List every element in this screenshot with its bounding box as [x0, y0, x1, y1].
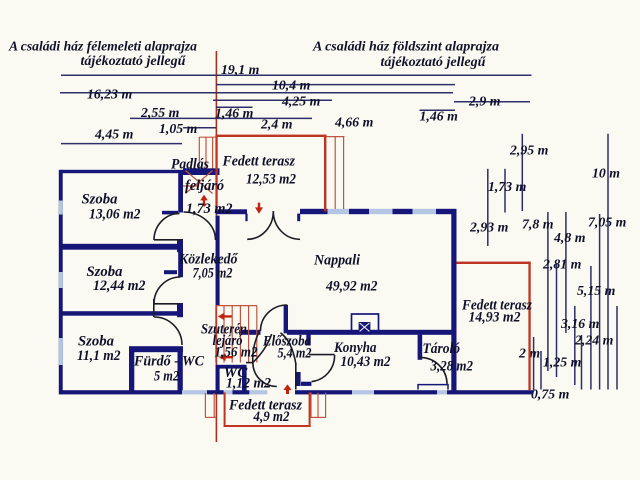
wall main top segment D — [436, 209, 457, 214]
red terasz bottom (4,9): left edge — [224, 392, 226, 427]
wall bottom segment 6 — [447, 390, 533, 394]
wall right outer (földszint) — [451, 210, 456, 391]
svg-text:1,05 m: 1,05 m — [159, 121, 198, 136]
red arrow down at double door — [255, 203, 263, 214]
red lower-terasz side step left cap — [205, 416, 215, 418]
red basement stair tread 1 — [215, 306, 217, 363]
wall leaf piece Konyha door — [301, 382, 311, 386]
svg-text:Fürdő - WC: Fürdő - WC — [133, 353, 204, 369]
wall leaf Előszoba top door — [284, 305, 288, 334]
wall left outer (left plan) — [59, 170, 63, 395]
wall Nappali/Konyha left part — [239, 330, 261, 335]
wall center divider upper (Nappali west) — [216, 216, 220, 306]
red basement stair tread 2 — [223, 306, 225, 363]
window main top W3 — [413, 209, 437, 214]
svg-text:3,28 m2: 3,28 m2 — [430, 358, 473, 374]
svg-text:49,92 m2: 49,92 m2 — [325, 279, 377, 295]
window bottom W5 — [437, 390, 447, 394]
wall bottom segment 3 — [233, 390, 250, 394]
vertical dimension line 1,73 m — [504, 169, 506, 213]
svg-text:0,75 m: 0,75 m — [531, 387, 570, 402]
door curve WC side right leaf — [253, 334, 272, 362]
wall main top segment A — [300, 209, 328, 214]
red lower-terasz side step right b — [317, 393, 319, 418]
dimension line 4,25 m — [213, 99, 332, 101]
door arc Előszoba bottom right — [281, 333, 297, 365]
svg-text:1,73 m: 1,73 m — [488, 179, 527, 194]
svg-text:14,93 m2: 14,93 m2 — [469, 309, 521, 325]
wall jamb at double door left — [245, 214, 247, 222]
vertical dimension line 2,81 m — [556, 264, 558, 377]
red attic stair top cap — [199, 136, 215, 138]
wall jamb at double door right — [297, 214, 300, 222]
red lower-terasz side step right cap — [310, 416, 326, 418]
red terasz bottom (4,9): right edge — [309, 392, 311, 427]
red terasz top: top edge — [215, 135, 326, 137]
wall WC right — [242, 365, 247, 392]
vertical dimension line 7,05 m — [599, 214, 601, 390]
wall Nappali/Konyha main — [287, 330, 452, 335]
wall bottom segment 5 — [374, 390, 437, 394]
red attic stair line c — [212, 137, 214, 169]
svg-text:1,12 m2: 1,12 m2 — [226, 375, 271, 391]
window main top W1 — [328, 209, 350, 214]
svg-text:12,44 m2: 12,44 m2 — [93, 278, 146, 294]
window left wall middle — [59, 272, 63, 288]
svg-text:7,05 m2: 7,05 m2 — [193, 265, 233, 281]
kitchen sink box — [359, 322, 371, 332]
red attic stair line b — [205, 137, 207, 169]
svg-text:Padlás: Padlás — [171, 157, 209, 173]
svg-text:feljáró: feljáró — [185, 178, 224, 194]
svg-text:Szoba: Szoba — [82, 192, 118, 208]
vertical dimension line 2,24 m — [581, 335, 583, 390]
svg-text:5,15 m: 5,15 m — [577, 283, 616, 298]
door arc Előszoba bottom left — [253, 362, 277, 386]
svg-text:2,93 m: 2,93 m — [469, 220, 509, 235]
red lower-terasz side step right a — [310, 393, 312, 418]
wall Fürdő left — [129, 352, 134, 391]
vertical dimension line 3,16 m — [574, 306, 576, 385]
svg-text:2,95 m: 2,95 m — [509, 142, 549, 157]
door leaf Szoba1 — [154, 239, 183, 241]
red arrow up bottom terasz door — [283, 384, 291, 394]
window bottom W2 — [224, 390, 233, 394]
window main top W2 — [369, 209, 393, 214]
svg-text:Fedett terasz: Fedett terasz — [222, 153, 296, 169]
red lower-terasz side step left a — [204, 393, 206, 418]
Tároló door threshold — [418, 385, 448, 390]
red basement stair top cap — [216, 305, 257, 307]
door leaf Konyha — [309, 354, 335, 356]
window left wall lower — [59, 338, 63, 365]
svg-text:1,73 m2: 1,73 m2 — [186, 201, 233, 217]
dimension line 2,55 m — [130, 117, 312, 119]
wall door nub Szoba2 — [164, 270, 177, 274]
red basement stair tread 5 — [248, 306, 250, 363]
wall attic-stair top block — [183, 168, 220, 175]
red basement stair tread 4 — [239, 306, 241, 363]
svg-text:2,4 m: 2,4 m — [260, 117, 293, 132]
red basement stair tread 6 — [256, 306, 258, 363]
svg-text:5,4 m2: 5,4 m2 — [278, 346, 312, 362]
svg-text:11,1 m2: 11,1 m2 — [77, 348, 121, 364]
svg-text:tájékoztató jellegű: tájékoztató jellegű — [381, 54, 486, 69]
vertical dimension line 10 m — [607, 134, 609, 390]
red step line terasz top right a — [334, 137, 336, 209]
svg-text:10 m: 10 m — [592, 165, 620, 180]
svg-text:7,05 m: 7,05 m — [588, 215, 627, 230]
vertical dimension line 7,8 m — [547, 212, 549, 371]
divider line between the two plans (dark red vertical) — [215, 51, 217, 442]
wall junction block szoba2/3 — [177, 303, 183, 317]
kitchen sink counter outline — [352, 314, 379, 332]
wall main top segment B — [349, 209, 369, 214]
wall main top segment C — [393, 209, 413, 214]
svg-text:1,56 m2: 1,56 m2 — [215, 345, 258, 361]
kitchen sink X mark — [360, 323, 370, 331]
door jamb line Előszoba bottom — [295, 364, 297, 390]
svg-text:A családi ház földszint alapra: A családi ház földszint alaprajza — [312, 38, 499, 53]
window bottom W1 — [182, 390, 207, 394]
double door right arc (terasz entry) — [273, 211, 300, 239]
wall junction block szoba1/2 — [177, 240, 183, 252]
red terasz top: right edge — [324, 135, 326, 212]
svg-text:12,53 m2: 12,53 m2 — [246, 172, 296, 188]
red arrow up attic stair — [200, 195, 208, 207]
svg-text:tájékoztató jellegű: tájékoztató jellegű — [81, 53, 186, 68]
double door left arc (terasz entry) — [247, 211, 273, 239]
wall Fürdő top — [129, 346, 183, 352]
red basement stair tread 3 — [231, 306, 233, 363]
dimension line 1,46 m right — [420, 109, 456, 111]
svg-text:16,23 m: 16,23 m — [87, 87, 132, 102]
window left wall upper — [59, 201, 63, 215]
svg-text:Szoba: Szoba — [78, 333, 114, 349]
door connector WC corner — [246, 362, 253, 364]
door curve WC side left leaf — [253, 333, 259, 363]
red arrow left basement stair upper — [218, 313, 232, 321]
svg-text:2,81 m: 2,81 m — [542, 257, 582, 272]
svg-text:1,25 m: 1,25 m — [543, 355, 582, 370]
svg-text:4,25 m: 4,25 m — [281, 94, 321, 109]
wall corridor upper (right wall of Szoba1) — [178, 173, 183, 213]
door arc Előszoba top — [261, 305, 288, 331]
wall bottom segment 4 — [295, 390, 352, 394]
wall between Szoba2 and Szoba3 — [62, 311, 181, 316]
vertical dimension line far right — [616, 306, 618, 390]
door arc Közlekedő entry — [184, 212, 216, 240]
vertical dimension line 1,25 m — [540, 351, 542, 390]
wall jamb Konyha door bottom — [296, 372, 301, 386]
wall Fürdő right — [178, 352, 183, 391]
red terasz bottom (4,9): bottom edge — [224, 425, 311, 427]
svg-text:Tároló: Tároló — [423, 341, 461, 357]
vertical dimension line 5,15 m — [590, 266, 592, 390]
wall door nub Szoba1 — [162, 211, 178, 215]
svg-text:4,8 m: 4,8 m — [553, 230, 586, 245]
svg-text:4,45 m: 4,45 m — [94, 127, 134, 142]
wall center divider lower (WC west) — [216, 369, 220, 391]
door leaf Szoba2 — [154, 303, 180, 305]
dimension line 1,05 m — [183, 127, 216, 129]
red terasz top: left edge — [215, 136, 217, 211]
svg-text:7,8 m: 7,8 m — [522, 217, 554, 232]
svg-text:13,06 m2: 13,06 m2 — [89, 207, 141, 223]
svg-text:10,43 m2: 10,43 m2 — [341, 354, 391, 370]
svg-text:19,1 m: 19,1 m — [221, 62, 260, 77]
red lower-terasz side step right c — [325, 393, 327, 418]
svg-text:4,66 m: 4,66 m — [334, 115, 374, 130]
red step line terasz top right b — [343, 137, 345, 209]
dimension line 1,46 m left — [216, 106, 253, 108]
red lower-terasz side step left b — [213, 393, 215, 418]
window bottom W3 — [249, 390, 267, 394]
svg-text:10,4 m: 10,4 m — [272, 78, 311, 93]
wall Előszoba right jamb — [306, 330, 310, 345]
wall bottom segment 1 — [62, 390, 183, 394]
red attic stair tread mid — [183, 185, 199, 187]
svg-text:3,16 m: 3,16 m — [560, 316, 600, 331]
dimension line 16,23 m — [60, 92, 453, 94]
svg-text:A családi ház félemeleti alapr: A családi ház félemeleti alaprajza — [8, 38, 197, 53]
svg-text:Nappali: Nappali — [313, 252, 360, 268]
vertical dimension line 2,93 m — [487, 169, 489, 246]
red step line terasz top horizontal — [326, 136, 344, 138]
wall between Szoba1 and Szoba2 — [62, 244, 178, 250]
vertical dimension line 2 m — [533, 337, 535, 390]
red arrow left basement stair lower — [219, 353, 233, 361]
vertical dimension line 4,8 m — [565, 212, 567, 333]
svg-text:1,46 m: 1,46 m — [420, 109, 459, 124]
door arc Szoba1 — [154, 214, 180, 241]
door arc Tároló — [420, 357, 447, 384]
wall bottom segment 2 — [207, 390, 224, 394]
red attic stair line a — [198, 137, 200, 169]
svg-text:2,24 m: 2,24 m — [574, 333, 614, 348]
svg-text:1,46 m: 1,46 m — [215, 106, 254, 121]
door arc Szoba3 — [154, 317, 182, 345]
svg-text:2,9 m: 2,9 m — [468, 94, 501, 109]
svg-text:4,9 m2: 4,9 m2 — [253, 409, 290, 425]
red terasz right (14,93): top edge — [456, 262, 530, 264]
svg-text:5 m2: 5 m2 — [154, 368, 179, 384]
dimension line 19,1 m — [61, 74, 532, 76]
dimension line 4,45 m — [61, 143, 182, 145]
dimension line 2,9 m — [454, 101, 530, 103]
red attic stair tread diagonal b — [186, 171, 213, 194]
door leaf Szoba3 — [153, 299, 155, 317]
wall top (left plan) — [62, 170, 184, 173]
svg-text:2,55 m: 2,55 m — [140, 105, 180, 120]
dimension line 10,4 m — [216, 84, 455, 86]
wall main top solid left part (földszint) — [216, 209, 247, 214]
door arc Szoba2 — [154, 277, 181, 304]
window bottom W4 — [352, 390, 374, 394]
door arc Konyha — [312, 355, 335, 382]
wall corridor mid (right wall of Szoba2) — [178, 252, 183, 277]
red terasz right (14,93): right edge — [528, 262, 530, 391]
wall WC top — [216, 365, 245, 369]
vertical dimension line 2,95 m — [521, 134, 523, 211]
red attic stair tread diagonal a — [186, 171, 213, 194]
wall Konyha/Tároló — [418, 335, 423, 360]
